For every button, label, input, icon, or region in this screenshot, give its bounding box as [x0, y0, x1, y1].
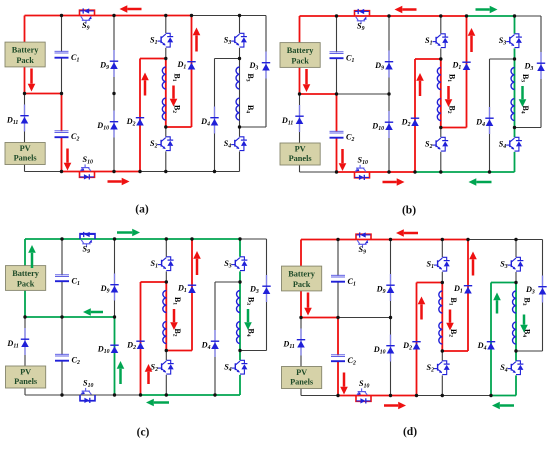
capacitor C2: [331, 354, 345, 356]
node top rail junctions: [336, 238, 339, 241]
svg-text:Pack: Pack: [16, 56, 34, 65]
svg-text:PV: PV: [296, 368, 307, 377]
svg-text:Pack: Pack: [17, 279, 35, 288]
node S3 emitter junction: [238, 57, 241, 60]
wire S3 collector: [514, 16, 516, 34]
red arrow top rail left: [402, 8, 416, 11]
diode D11: [299, 105, 301, 132]
diode D4: [214, 107, 216, 134]
wire mid rail battery to C2: [25, 316, 62, 318]
wire D2 column: [140, 282, 142, 395]
wire B2 bottom horizontal: [441, 127, 467, 129]
wire S3 collector: [239, 16, 241, 34]
wire D4 column: [214, 282, 216, 395]
wire B4 bottom horizontal: [240, 350, 267, 352]
inductor B2: [437, 99, 440, 121]
diode D11: [24, 105, 26, 132]
wire bottom rail far-left section: [25, 171, 62, 173]
wire D3 column: [265, 16, 267, 128]
node top rail junctions: [335, 14, 338, 17]
svg-text:Panels: Panels: [290, 378, 314, 387]
wire top rail left section: [301, 239, 468, 241]
wire S3 emitter: [239, 48, 241, 59]
svg-text:(b): (b): [402, 205, 416, 217]
inductor B3: [236, 67, 239, 89]
svg-text:PV: PV: [20, 144, 31, 153]
subcircuit (b): [280, 6, 545, 186]
switch S10: [80, 172, 95, 178]
wire mid rail C2 to D10: [338, 317, 391, 319]
wire S1 emitter: [440, 48, 442, 59]
subcircuit (c): [6, 229, 271, 407]
wire B1 B2 spine: [165, 282, 167, 351]
svg-text:PV: PV: [20, 367, 31, 376]
wire top rail right section: [240, 238, 267, 240]
diode D2: [412, 341, 420, 343]
wire bottom rail S10 section: [337, 171, 416, 173]
node S1 emitter junction: [439, 57, 442, 60]
wire B4 bottom horizontal: [516, 350, 543, 352]
subcircuit (d): [282, 229, 547, 409]
red arrow D1 up: [195, 35, 198, 51]
battery pack box: [282, 266, 322, 291]
svg-text:Panels: Panels: [289, 154, 313, 163]
diode D3: [266, 275, 268, 302]
wire PV bottom: [300, 389, 302, 396]
red arrow D2 up: [144, 80, 147, 95]
red arrow bottom rail right: [383, 181, 397, 184]
inductor B4: [513, 322, 516, 344]
wire S1 collector: [441, 240, 443, 258]
red arrow B1-B2 down: [447, 86, 450, 99]
wire S1 emitter: [165, 271, 167, 282]
wire D10 column: [114, 317, 116, 395]
red arrow C2 down: [66, 149, 69, 163]
wire C1 lower lead: [61, 282, 63, 318]
red arrow top rail left: [127, 8, 141, 11]
diode D3: [542, 276, 544, 303]
wire S4 collector: [515, 351, 517, 361]
wire D9 column: [390, 240, 392, 318]
red arrow B1-B2 down: [449, 310, 452, 323]
svg-text:Panels: Panels: [14, 154, 38, 163]
wire B3 B4 spine: [239, 282, 241, 351]
svg-text:Panels: Panels: [14, 377, 38, 386]
wire C1 upper lead: [61, 239, 63, 275]
wire S3 emitter: [514, 48, 516, 59]
wire battery top: [299, 16, 301, 43]
wire B1 B2 spine: [165, 59, 167, 128]
wire D1 column: [191, 239, 193, 351]
wire bottom rail S10 section: [338, 395, 417, 397]
wire top rail left section: [25, 238, 192, 240]
wire bottom rail far-left section: [25, 394, 62, 396]
node B2 bottom junction: [164, 125, 167, 128]
wire S3 collector: [515, 240, 517, 258]
svg-text:PV: PV: [295, 144, 306, 153]
wire D9 column: [388, 16, 390, 94]
wire D9 column: [113, 16, 115, 94]
inductor B1: [439, 291, 442, 313]
diode D9: [113, 50, 115, 77]
capacitor C2: [55, 130, 69, 132]
red arrow bottom rail right: [384, 404, 398, 407]
wire D4 top horizontal: [215, 281, 240, 283]
wire bottom rail middle section: [141, 394, 216, 396]
wire B3 B4 spine: [239, 59, 241, 128]
node B4 bottom junction: [238, 125, 241, 128]
green arrow B3-B4 down: [247, 309, 250, 322]
diode D1: [188, 284, 196, 286]
diode D9: [390, 274, 392, 301]
wire bottom rail S10 section: [62, 171, 141, 173]
PV panels box: [282, 367, 322, 389]
wire bottom rail right section: [490, 171, 515, 173]
wire mid rail battery to C2: [25, 93, 62, 95]
wire battery bottom: [24, 67, 26, 94]
transistor S4: [240, 137, 244, 140]
wire D4 top horizontal: [490, 58, 515, 60]
diode D4: [489, 107, 491, 134]
diode D1: [187, 61, 195, 63]
green arrow bottom rail left: [154, 401, 169, 404]
wire bottom rail far-left section: [300, 171, 337, 173]
wire S4 emitter: [515, 375, 517, 395]
red arrow battery current down: [305, 69, 308, 84]
node bottom rail junctions: [336, 394, 339, 397]
node B4 bottom junction: [513, 126, 516, 129]
wire mid rail C2 to D10: [337, 93, 390, 95]
svg-text:Pack: Pack: [291, 56, 309, 65]
wire S1 emitter: [165, 48, 167, 59]
wire D4 top horizontal: [215, 58, 240, 60]
transistor S4: [515, 137, 519, 140]
wire C2 upper lead: [337, 318, 339, 356]
capacitor C1: [331, 274, 345, 276]
svg-text:Battery: Battery: [12, 269, 40, 278]
wire top rail right section: [516, 239, 543, 241]
wire D4 column: [490, 283, 492, 396]
node S1 emitter junction: [165, 280, 168, 283]
wire D2 column: [416, 283, 418, 396]
wire bottom rail middle section: [415, 171, 490, 173]
wire C2 lower lead: [61, 138, 63, 172]
wire D10 column: [390, 318, 392, 396]
transistor S3: [240, 33, 244, 36]
node mid rail junctions: [23, 92, 26, 95]
wire B3 B4 spine: [515, 283, 517, 352]
wire D3 column: [542, 240, 544, 352]
wire D1 column: [467, 240, 469, 352]
diode D9: [388, 51, 390, 78]
red arrow D2 up: [420, 304, 423, 319]
diode D10: [113, 111, 115, 138]
diode D11: [300, 329, 302, 356]
wire C2 lower lead: [337, 362, 339, 396]
diode D4: [214, 330, 216, 357]
wire top rail middle section: [192, 15, 240, 17]
node mid rail junctions: [299, 316, 302, 319]
wire C1 lower lead: [336, 59, 338, 95]
wire PV bottom: [299, 165, 301, 172]
wire battery bottom: [24, 290, 26, 317]
wire mid rail battery to C2: [300, 93, 337, 95]
transistor S2: [442, 361, 446, 364]
capacitor C2: [330, 130, 344, 132]
diode D3: [540, 52, 542, 79]
diode D3: [265, 52, 267, 79]
wire S1 collector: [440, 16, 442, 34]
wire D2 top horizontal: [141, 281, 167, 283]
wire B1 B2 spine: [440, 59, 442, 128]
red arrow C2 down: [343, 373, 346, 387]
inductor B4: [237, 322, 240, 344]
node top rail junctions: [60, 14, 63, 17]
wire D10 column: [113, 94, 115, 172]
wire S3 collector: [239, 239, 241, 257]
green arrow D10 up: [119, 369, 122, 384]
wire S2 collector: [165, 127, 167, 137]
wire C1 upper lead: [336, 16, 338, 52]
wire bottom rail right section: [215, 171, 240, 173]
switch S9: [80, 10, 95, 15]
wire D1 column: [466, 16, 468, 128]
transistor S1: [441, 34, 445, 37]
inductor B1: [162, 67, 165, 89]
red arrow D1 up: [470, 36, 473, 52]
wire bottom rail middle section: [417, 395, 492, 397]
inductor B3: [513, 291, 516, 313]
node mid rail junctions: [23, 315, 26, 318]
switch S9: [355, 11, 370, 16]
wire B2 bottom horizontal: [166, 126, 192, 128]
transistor S4: [240, 360, 244, 363]
transistor S3: [516, 257, 520, 260]
wire top rail left section: [300, 15, 467, 17]
wire B3 B4 spine: [514, 59, 516, 128]
inductor B2: [162, 98, 165, 120]
green arrow mid rail left: [91, 311, 103, 314]
wire B2 bottom horizontal: [442, 350, 468, 352]
node mid rail junctions: [298, 92, 301, 95]
node bottom rail junctions: [60, 170, 63, 173]
wire top rail right section: [240, 15, 267, 17]
wire battery bottom: [299, 67, 301, 94]
wire battery top: [300, 240, 302, 267]
wire C1 upper lead: [61, 16, 63, 52]
wire D2 top horizontal: [415, 58, 441, 60]
diode D10: [390, 335, 392, 362]
wire battery bottom: [300, 291, 302, 318]
wire D4 column: [489, 59, 491, 172]
wire B1 B2 spine: [441, 283, 443, 352]
node S3 emitter junction: [514, 281, 517, 284]
node B4 bottom junction: [514, 349, 517, 352]
wire battery top: [24, 239, 26, 266]
wire top rail middle section: [192, 238, 240, 240]
svg-text:Pack: Pack: [293, 280, 311, 289]
diode D2: [136, 117, 144, 119]
node S3 emitter junction: [513, 57, 516, 60]
red arrow battery current down: [307, 293, 310, 308]
switch S9: [80, 234, 95, 239]
svg-text:Battery: Battery: [288, 270, 316, 279]
node S1 emitter junction: [164, 57, 167, 60]
wire S4 emitter: [239, 375, 241, 395]
wire D2 top horizontal: [417, 282, 443, 284]
green arrow battery up: [31, 253, 34, 268]
wire S1 emitter: [441, 272, 443, 283]
red arrow D2 up: [419, 81, 422, 96]
node bottom rail junctions: [60, 393, 63, 396]
green arrow D4 up: [496, 300, 499, 313]
wire C2 upper lead: [336, 94, 338, 132]
transistor S1: [442, 257, 446, 260]
diode D10: [388, 111, 390, 138]
wire D2 column: [139, 59, 141, 172]
inductor B2: [163, 322, 166, 344]
PV panels box: [6, 366, 46, 388]
node B2 bottom junction: [165, 349, 168, 352]
wire top rail middle section: [467, 15, 515, 17]
wire C2 upper lead: [61, 317, 63, 355]
node S1 emitter junction: [441, 281, 444, 284]
wire bottom rail S10 section: [62, 394, 141, 396]
node bottom rail junctions: [335, 170, 338, 173]
wire C1 lower lead: [61, 58, 63, 94]
battery pack box: [6, 266, 46, 291]
wire S4 emitter: [239, 151, 241, 171]
wire D11 column: [24, 317, 26, 366]
diode D10: [110, 344, 118, 346]
wire D4 top horizontal: [491, 282, 516, 284]
wire B2 bottom horizontal: [166, 350, 192, 352]
subcircuit (a): [5, 5, 270, 185]
diode D11: [24, 328, 26, 355]
transistor S3: [240, 257, 244, 260]
node S3 emitter junction: [238, 280, 241, 283]
red arrow C2 down: [341, 149, 344, 163]
node B4 bottom junction: [238, 349, 241, 352]
wire S2 collector: [441, 351, 443, 361]
wire C2 upper lead: [61, 94, 63, 132]
red arrow bottom rail right: [108, 180, 122, 183]
wire S2 emitter: [165, 151, 167, 171]
wire C2 lower lead: [336, 138, 338, 172]
wire S3 emitter: [239, 271, 241, 282]
wire S4 collector: [239, 351, 241, 361]
transistor S2: [166, 360, 170, 363]
PV panels box: [5, 143, 45, 165]
capacitor C1: [330, 51, 344, 53]
red arrow D1 up: [472, 259, 475, 275]
wire S1 collector: [165, 239, 167, 257]
wire D11 column: [300, 318, 302, 367]
transistor S1: [166, 257, 170, 260]
wire PV bottom: [24, 165, 26, 172]
svg-text:(d): (d): [403, 426, 417, 438]
green arrow top rail right: [476, 8, 490, 11]
wire PV bottom: [24, 388, 26, 395]
wire B4 bottom horizontal: [515, 127, 542, 129]
transistor S4: [516, 361, 520, 364]
wire D11 column: [299, 94, 301, 143]
wire S4 collector: [514, 128, 516, 138]
wire S2 emitter: [165, 375, 167, 395]
wire S4 collector: [239, 127, 241, 137]
wire D2 column: [414, 59, 416, 172]
wire S3 emitter: [515, 272, 517, 283]
green arrow bottom rail left: [476, 181, 491, 184]
red arrow top rail left: [404, 232, 418, 235]
battery pack box: [5, 42, 45, 67]
wire battery top: [24, 16, 26, 43]
wire S2 collector: [440, 128, 442, 138]
wire C1 upper lead: [337, 240, 339, 276]
green arrow top rail right: [117, 231, 132, 234]
svg-text:Battery: Battery: [12, 46, 40, 55]
diode D1: [462, 61, 470, 63]
green arrow B3-B4 down: [523, 315, 526, 325]
diode D9: [114, 274, 116, 301]
wire D2 top horizontal: [140, 58, 166, 60]
wire mid rail C2 to D10: [62, 316, 115, 318]
red arrow B1-B2 down: [173, 309, 176, 322]
diode D2: [411, 117, 419, 119]
inductor B4: [511, 99, 514, 121]
switch S10: [356, 396, 371, 402]
red arrow D1 up: [196, 259, 199, 275]
transistor S2: [441, 137, 445, 140]
wire bottom rail right section: [491, 395, 516, 397]
wire top rail right section: [515, 15, 542, 17]
inductor B3: [237, 291, 240, 313]
svg-text:Battery: Battery: [287, 46, 315, 55]
wire D3 column: [540, 16, 542, 128]
wire top rail middle section: [468, 239, 516, 241]
wire S4 emitter: [514, 152, 516, 172]
node top rail junctions: [60, 237, 63, 240]
node B2 bottom junction: [439, 126, 442, 129]
inductor B2: [439, 322, 442, 344]
inductor B1: [437, 68, 440, 90]
inductor B3: [511, 68, 514, 90]
capacitor C1: [55, 50, 69, 52]
wire mid rail battery to C2: [301, 317, 338, 319]
green arrow bottom rail left short: [500, 404, 514, 407]
diode D2: [136, 340, 144, 342]
transistor S2: [166, 137, 170, 140]
wire B4 bottom horizontal: [240, 126, 267, 128]
wire D1 column: [191, 16, 193, 128]
inductor B1: [163, 291, 166, 313]
red arrow S2 bypass up: [147, 372, 150, 384]
PV panels box: [280, 143, 320, 165]
wire bottom rail middle section: [140, 171, 215, 173]
inductor B4: [236, 98, 239, 120]
green arrow B3-B4 down: [521, 86, 524, 99]
svg-text:(c): (c): [137, 427, 150, 439]
wire D4 column: [214, 59, 216, 172]
wire S1 collector: [165, 16, 167, 34]
wire bottom rail far-left section: [301, 395, 338, 397]
red arrow B1-B2 down: [172, 86, 175, 99]
battery pack box: [280, 43, 320, 68]
wire S2 emitter: [440, 152, 442, 172]
wire D9 column: [114, 239, 116, 317]
wire bottom rail right section: [215, 394, 240, 396]
switch S10: [355, 172, 370, 178]
